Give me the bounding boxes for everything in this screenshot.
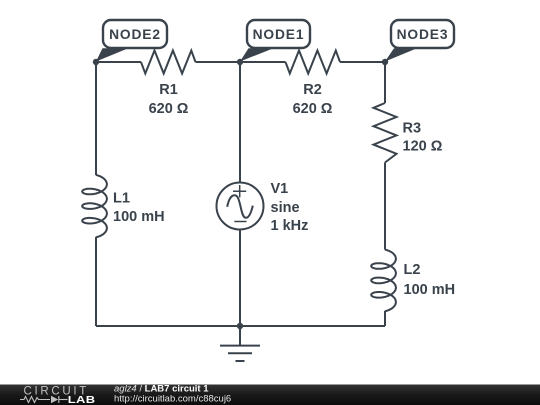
V1 sine wave [227,195,253,218]
inductor L2 [371,250,396,312]
svg-text:sine: sine [271,200,300,216]
svg-text:620 Ω: 620 Ω [293,101,333,117]
wire left rail upper (node2 to L1) [95,62,97,175]
inductor L1 [82,175,107,238]
svg-text:R2: R2 [303,82,322,98]
logo wire with resistor and diode [20,396,68,403]
svg-text:100 mH: 100 mH [113,209,165,225]
svg-text:V1: V1 [271,181,289,197]
svg-text:R3: R3 [403,121,422,137]
ground bar 2 [228,352,252,354]
svg-text:L2: L2 [404,262,421,278]
callout tail NODE2 [96,48,129,61]
callout box NODE3 [391,20,454,48]
callout tail NODE1 [240,48,274,61]
resistor R3 [374,103,397,163]
svg-text:R1: R1 [159,82,178,98]
V1 plus sign [233,185,246,198]
node junction dot NODE1 [237,59,243,65]
wire mid rail upper (node1 to V1) [239,62,241,183]
svg-text:620 Ω: 620 Ω [149,101,189,117]
svg-text:LAB: LAB [68,395,96,405]
wire bottom rail [96,325,385,327]
wire right rail lower (L2 to bottom) [384,311,386,326]
V1 minus sign [234,221,246,223]
svg-text:NODE2: NODE2 [109,27,161,42]
svg-text:http://circuitlab.com/c88cuj6: http://circuitlab.com/c88cuj6 [114,393,231,404]
callout tail NODE3 [385,48,417,61]
ground bar 1 [220,345,260,347]
node junction dot ground [237,323,243,329]
svg-text:100 mH: 100 mH [404,282,456,298]
svg-text:1 kHz: 1 kHz [271,218,309,234]
svg-text:L1: L1 [113,191,130,207]
wire top: NODE2 to R1 [96,61,141,63]
wire mid rail lower (V1 to bottom) [239,230,241,327]
wire top: R2 to NODE3 [340,61,385,63]
wire top: NODE1 to R2 [240,61,286,63]
logo diode triangle [51,396,58,404]
callout box NODE1 [247,20,310,48]
resistor R2 [286,51,341,74]
voltage source V1 circle [217,183,264,230]
svg-text:NODE1: NODE1 [253,27,305,42]
callout box NODE2 [103,20,167,48]
footer bar background [0,385,540,405]
node junction dot NODE2 [93,59,99,65]
ground bar 3 [236,360,245,362]
wire right rail upper (node3 to R3) [384,62,386,103]
ground stub wire [239,326,241,345]
node junction dot NODE3 [382,59,388,65]
resistor R1 [141,51,196,74]
wire left rail lower (L1 to bottom) [95,237,97,326]
svg-text:NODE3: NODE3 [397,27,449,42]
wire right rail mid (R3 to L2) [384,163,386,250]
svg-text:120 Ω: 120 Ω [403,139,443,155]
wire top: R1 to NODE1 [196,61,241,63]
